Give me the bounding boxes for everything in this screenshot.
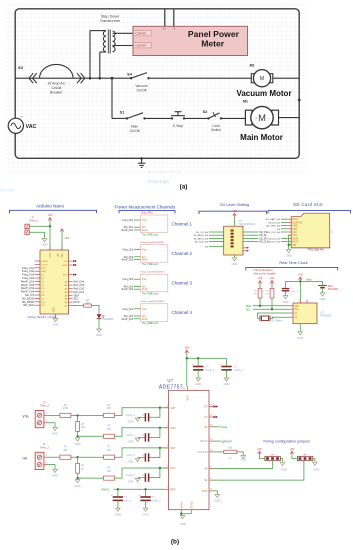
svg-text:+5V: +5V	[64, 237, 69, 240]
wire S1 to E-stop	[145, 117, 173, 119]
svg-text:Freq_Ch2: Freq_Ch2	[123, 249, 134, 252]
svg-text:SD_D1_3v3: SD_D1_3v3	[268, 242, 281, 244]
svg-text:On/Off: On/Off	[130, 129, 140, 133]
bracket Arduino Nano section	[10, 210, 97, 213]
svg-text:SD_CS: SD_CS	[25, 293, 34, 297]
wire SD_CLK	[243, 241, 259, 243]
svg-text:On/Off: On/Off	[137, 88, 147, 92]
svg-text:200: 200	[107, 407, 112, 410]
wire resistor to node	[71, 414, 78, 416]
arduino bottom GND pin	[55, 314, 57, 318]
wire branch to lower row	[111, 78, 113, 118]
wire +5V rail RTC	[286, 280, 323, 282]
wire RevP_Ch3	[134, 288, 140, 290]
resistor R220	[84, 304, 92, 307]
wire SD_D3_3v3	[281, 221, 288, 223]
svg-text:Ref_Ch1: Ref_Ch1	[74, 290, 85, 294]
capacitor C1 0.1uF	[282, 289, 289, 291]
op-amp U3 RTC IC body	[293, 303, 317, 324]
svg-text:GND: GND	[75, 442, 81, 446]
svg-text:LED3MM: LED3MM	[103, 318, 113, 321]
svg-text:SCL: SCL	[246, 307, 252, 311]
svg-text:(a): (a)	[180, 184, 188, 191]
wire REF	[114, 488, 165, 490]
svg-text:SD_SCK: SD_SCK	[23, 303, 34, 307]
svg-text:Term_2: Term_2	[40, 404, 49, 408]
wire LED to ground	[98, 319, 100, 329]
svg-text:Arduino Nano: Arduino Nano	[36, 204, 65, 209]
ADE left pins	[165, 407, 169, 409]
svg-text:0.1uF_d: 0.1uF_d	[126, 415, 135, 417]
ground filter row 2	[128, 438, 140, 443]
svg-text:SD_CLK_3v3: SD_CLK_3v3	[267, 232, 281, 234]
wire lower row	[112, 117, 127, 119]
svg-text:+5V: +5V	[289, 447, 294, 451]
svg-text:Panel Power: Panel Power	[188, 29, 240, 39]
svg-text:GND: GND	[214, 499, 220, 503]
svg-text:Ref: Ref	[142, 227, 146, 229]
ground battery	[320, 293, 326, 301]
grid background (decorative, part a canvas)	[5, 2, 306, 174]
svg-text:VCC: VCC	[50, 252, 52, 257]
top pin stubs	[49, 247, 51, 251]
svg-text:May not be installed: May not be installed	[254, 272, 277, 275]
+5V supply RTC pullup2	[269, 276, 274, 285]
wire SD_CS	[243, 231, 259, 233]
resistor R pullup SCL	[271, 285, 273, 289]
svg-text:Real Time Clock: Real Time Clock	[279, 260, 307, 265]
svg-text:Switch: Switch	[211, 128, 221, 132]
svg-text:SD_D0_3v3: SD_D0_3v3	[268, 238, 281, 240]
svg-text:VIN: VIN	[64, 261, 68, 263]
svg-text:The_PME1.sch: The_PME1.sch	[142, 263, 159, 266]
wire +5V to IC top	[234, 217, 236, 226]
wire R6k2 to ground	[237, 452, 244, 455]
wire resistor to node	[71, 456, 78, 458]
svg-text:RevP_Ch2: RevP_Ch2	[21, 283, 35, 287]
svg-text:Ref: Ref	[142, 286, 146, 288]
svg-text:Step Down: Step Down	[101, 15, 120, 19]
svg-text:+5V: +5V	[257, 276, 262, 280]
motor M1 main	[245, 106, 278, 128]
svg-text:GND: GND	[54, 307, 56, 312]
svg-text:+5V: +5V	[269, 276, 274, 280]
AC source VAC	[8, 118, 23, 133]
svg-text:Power_meterEC1234567: Power_meterEC1234567	[141, 241, 165, 244]
svg-text:Freq_Ch4: Freq_Ch4	[22, 276, 34, 280]
wire main top row	[15, 77, 131, 79]
svg-text:SCL: SCL	[74, 297, 80, 301]
svg-text:The_PME1.sch: The_PME1.sch	[142, 293, 159, 296]
svg-text:GND: GND	[195, 382, 201, 386]
svg-text:RevP: RevP	[142, 319, 148, 321]
jumper JP1 3-pin	[265, 454, 280, 460]
svg-text:SDA: SDA	[246, 304, 252, 308]
svg-text:32.768kHz: 32.768kHz	[272, 320, 284, 322]
wire +5V to jumper 2	[292, 455, 298, 458]
svg-text:CD/DAT3: CD/DAT3	[292, 221, 302, 224]
resistor R pullup SDA	[259, 285, 261, 289]
svg-text:GND: GND	[286, 254, 292, 258]
svg-text:SD Card Slot: SD Card Slot	[293, 202, 323, 207]
svg-text:+: +	[20, 115, 22, 119]
capacitor C filter row 2	[145, 433, 148, 441]
junction dot right rail	[298, 99, 301, 102]
svg-text:GND: GND	[180, 522, 186, 526]
svg-text:Ref_Ch4: Ref_Ch4	[74, 280, 85, 284]
svg-text:GND: GND	[128, 460, 134, 464]
svg-text:The_PME1.sch: The_PME1.sch	[142, 322, 159, 325]
ADE bottom pins AGND DGND	[180, 510, 182, 514]
wire RevP_Ch1	[134, 229, 140, 231]
connector J1 Term_2	[25, 215, 38, 234]
wire Ref_Ch2	[134, 256, 140, 258]
wire pin2 to ground	[48, 465, 55, 470]
wire cap to ground row 2	[138, 436, 146, 438]
svg-text:REF: REF	[170, 487, 176, 491]
ground jumper 2	[313, 462, 320, 471]
svg-text:Freq: Freq	[142, 219, 147, 222]
svg-text:F2: F2	[204, 415, 208, 419]
svg-text:F1: F1	[204, 405, 208, 409]
svg-text:6k2: 6k2	[228, 447, 233, 450]
svg-text:GND: GND	[115, 512, 121, 516]
svg-text:SD_CS_3v3: SD_CS_3v3	[196, 232, 209, 234]
wire row 3 to filter cap	[149, 448, 160, 458]
svg-text:DGND: DGND	[190, 501, 193, 508]
wire row 1 to chip	[115, 408, 169, 416]
svg-text:GND: GND	[75, 484, 81, 488]
svg-text:Ref: Ref	[142, 257, 146, 259]
svg-text:SD_CMD_3v3: SD_CMD_3v3	[266, 226, 281, 228]
svg-text:RevP: RevP	[142, 260, 148, 262]
resistor R 33k series	[60, 455, 71, 459]
svg-text:Channel 1: Channel 1	[172, 221, 193, 226]
svg-text:Ref: Ref	[142, 316, 146, 318]
wire E-stop to S2	[184, 117, 209, 119]
svg-text:S2: S2	[203, 110, 208, 114]
wire Freq_Ch3	[134, 278, 140, 280]
capacitor C filter row 3	[145, 453, 148, 461]
wire to series R row 3	[78, 456, 104, 458]
ground SD card	[286, 250, 292, 258]
svg-text:GND: GND	[53, 323, 59, 327]
op-amp U2 level shifter IC body	[224, 226, 243, 255]
wire VSS down	[289, 235, 292, 249]
svg-text:Current: Current	[135, 44, 146, 48]
svg-text:1.0uF_d: 1.0uF_d	[234, 369, 243, 372]
+5V supply ADE	[184, 346, 189, 355]
resistor R 200 row 2	[104, 434, 115, 438]
wire Ref_Ch3	[134, 285, 140, 287]
wire Freq_Ch1	[134, 219, 140, 221]
svg-text:V2P: V2P	[170, 406, 175, 410]
wire RevP_Ch2	[134, 259, 140, 261]
wire S0 to jumper 1	[213, 461, 273, 469]
svg-text:GND: GND	[41, 271, 46, 273]
ground level shifter	[232, 258, 238, 266]
wire +5V down to VCC pin	[49, 222, 51, 251]
svg-text:SCL: SCL	[294, 309, 299, 311]
svg-text:+5V: +5V	[257, 447, 262, 451]
svg-text:V2N: V2N	[170, 426, 175, 430]
svg-text:DAT2: DAT2	[292, 218, 298, 221]
svg-text:SD_SCK_3v3: SD_SCK_3v3	[195, 242, 209, 244]
svg-text:S1: S1	[204, 478, 208, 482]
ground J1-2	[42, 239, 48, 247]
svg-text:0.1uF_d: 0.1uF_d	[126, 455, 135, 457]
svg-text:@REVP: @REVP	[222, 439, 232, 443]
svg-text:GND: GND	[128, 439, 134, 443]
svg-text:GND: GND	[52, 432, 58, 436]
wire S4 to vacuum motor	[149, 77, 252, 79]
ground symbol	[140, 157, 143, 160]
wire crystal X2	[270, 317, 290, 318]
ground filter row 1	[128, 418, 140, 423]
svg-text:AGND: AGND	[180, 501, 183, 508]
wire to series R row 1	[78, 414, 104, 416]
svg-text:GND: GND	[320, 297, 326, 301]
motor M2 vacuum	[251, 70, 272, 87]
svg-text:+5V: +5V	[47, 213, 52, 217]
meter current input labels	[134, 30, 152, 35]
wire SD_CS_3v3	[209, 231, 224, 233]
svg-text:VAC: VAC	[26, 124, 37, 130]
svg-text:Channel 2: Channel 2	[172, 251, 193, 256]
svg-text:GND: GND	[52, 474, 58, 478]
svg-text:Freq: Freq	[142, 249, 147, 252]
svg-text:CLK: CLK	[292, 232, 297, 234]
arduino left pins	[35, 260, 41, 262]
svg-text:Freq_Ch1: Freq_Ch1	[123, 219, 134, 222]
svg-text:GND: GND	[62, 265, 67, 267]
wire cap to ground row 1	[138, 416, 146, 418]
wire pin1 to series resistor	[48, 456, 60, 458]
svg-text:S0: S0	[204, 467, 208, 471]
svg-text:200: 200	[107, 449, 112, 452]
resistor R 200 row 1	[104, 413, 115, 417]
battery BAT1	[322, 281, 324, 285]
svg-text:1uF_d: 1uF_d	[124, 500, 131, 503]
svg-text:Descargar: Descargar	[148, 179, 170, 184]
svg-text:0.1uF_d: 0.1uF_d	[290, 291, 299, 293]
wire SD_SCK_3v3	[209, 241, 224, 243]
wire +5V rail	[187, 357, 227, 359]
svg-text:Freq: Freq	[142, 278, 147, 281]
svg-text:Circuit: Circuit	[51, 86, 61, 90]
svg-text:Freq_Ch4: Freq_Ch4	[123, 308, 134, 311]
wire SD_CLK_3v3	[281, 231, 288, 233]
bracket real time clock section	[246, 268, 338, 271]
wire SD_DO	[243, 237, 259, 239]
svg-text:DAT1: DAT1	[292, 241, 298, 244]
svg-text:Timing configuration jumpers: Timing configuration jumpers	[263, 439, 310, 443]
svg-text:CMD: CMD	[292, 226, 298, 228]
wire to series R row 4	[78, 477, 104, 479]
switch S1 main on/off	[126, 117, 128, 119]
svg-text:RefC0: RefC0	[102, 487, 110, 491]
ground RCLKIN	[240, 455, 246, 461]
ground divider iin	[75, 480, 81, 488]
svg-text:Power_meterEC1234567: Power_meterEC1234567	[141, 300, 165, 303]
svg-text:Freq: Freq	[142, 308, 147, 311]
wire Ref_Ch1	[134, 226, 140, 228]
op-amp U1 Arduino Nano IC body	[40, 250, 69, 314]
+5V supply jumper 2	[289, 447, 294, 456]
wire SDA	[253, 305, 290, 307]
svg-text:GND: GND	[96, 333, 102, 337]
svg-text:0.1uF_d: 0.1uF_d	[205, 369, 214, 372]
wire SCL	[253, 308, 290, 310]
svg-text:I In: I In	[23, 456, 28, 460]
resistor R 200 shunt	[76, 422, 80, 432]
wire J1-1 to +5V	[30, 225, 50, 227]
ground ADE	[180, 516, 186, 526]
svg-text:SD_D3_3v3: SD_D3_3v3	[268, 222, 281, 224]
svg-text:Power Measurement Channels: Power Measurement Channels	[115, 204, 176, 209]
wire pin1 to series resistor	[48, 414, 60, 416]
SD card pins	[288, 218, 291, 220]
svg-text:GND: GND	[240, 458, 246, 462]
svg-text:Channel 3: Channel 3	[172, 281, 193, 286]
resistor R 1k shunt	[76, 463, 80, 473]
svg-text:V-: V-	[173, 26, 176, 30]
svg-text:RevP: RevP	[142, 289, 148, 291]
svg-text:V1P: V1P	[170, 446, 175, 450]
svg-text:4(0)1(6):;: 4(0)1(6):;	[0, 187, 16, 192]
svg-text:IC?: IC?	[331, 229, 334, 233]
svg-text:VDD: VDD	[187, 395, 190, 400]
wire row 2 to chip	[115, 428, 169, 437]
svg-text:RevP: RevP	[142, 230, 148, 232]
wire R220 to LED	[91, 306, 99, 315]
svg-text:Freq_Ch3: Freq_Ch3	[123, 278, 134, 281]
bracket power measurement section	[119, 211, 175, 214]
svg-text:S3: S3	[18, 65, 24, 70]
wire SD_DI	[243, 234, 259, 236]
resistor R pullup SCL 4k7	[270, 288, 274, 298]
wire node down through divider	[77, 457, 79, 463]
svg-text:Term_2: Term_2	[40, 445, 49, 449]
level shifter aux pins bottom right	[243, 247, 247, 249]
wire jumper 1 to ground	[280, 459, 282, 463]
ground C ref 0.5uF_d	[143, 508, 149, 516]
svg-text:RevP_Ch1: RevP_Ch1	[21, 279, 35, 283]
svg-text:74LVC245+5v3: 74LVC245+5v3	[239, 223, 256, 226]
wire RCLKIN	[213, 451, 224, 453]
svg-text:M2: M2	[250, 63, 255, 67]
svg-text:M1: M1	[243, 99, 248, 103]
wire row 3 to chip	[115, 448, 169, 457]
resistor R 470k series	[60, 413, 71, 417]
ground C1	[283, 296, 289, 304]
svg-text:Main Motor: Main Motor	[240, 133, 283, 142]
ground RTC	[297, 332, 303, 340]
svg-text:The_PME1.sch: The_PME1.sch	[142, 233, 159, 236]
wire S1 to jumper 2	[213, 461, 304, 480]
junction dots on top row	[89, 77, 92, 80]
capacitor C ref 0.5uF_d	[140, 497, 150, 500]
resistor R pullup SDA 4k7	[258, 288, 262, 298]
wire IC bottom to ground	[234, 255, 236, 258]
capacitor C filter row 4	[145, 473, 148, 481]
capacitor C bulk 1.0uF	[221, 367, 231, 370]
wire 3v3	[209, 245, 224, 247]
ground LED	[96, 329, 102, 337]
svg-text:Vbat: Vbat	[306, 277, 312, 281]
transformer T1 (step down)	[90, 30, 133, 79]
svg-text:SDA: SDA	[74, 293, 80, 297]
ground SCF	[214, 495, 220, 503]
ground C decoupling 1	[195, 378, 201, 386]
resistor R 200 row 3	[104, 455, 115, 459]
ground C ref 1uF_d	[115, 508, 121, 516]
svg-text:MS412FE: MS412FE	[328, 289, 339, 291]
svg-text:Current: Current	[135, 32, 146, 36]
svg-text:Power_meterEC1234567: Power_meterEC1234567	[141, 271, 165, 274]
capacitor C filter row 1	[145, 413, 148, 421]
arduino right lower pins	[69, 281, 73, 283]
svg-text:RevP_Ch3: RevP_Ch3	[122, 288, 134, 291]
pushbutton E-Stop	[171, 112, 185, 116]
svg-text:+: +	[255, 116, 257, 120]
wire crystal X1	[258, 313, 290, 318]
panel power meter box	[133, 26, 248, 55]
svg-text:TF09-2066-442: TF09-2066-442	[307, 249, 324, 252]
svg-text:SD_MISO: SD_MISO	[22, 300, 34, 304]
wire row 2 to filter cap	[149, 428, 160, 438]
wire SD_D0_3v3	[281, 237, 288, 239]
svg-text:PCF8523T: PCF8523T	[320, 315, 332, 318]
ground arduino	[53, 318, 59, 326]
wire SD_MOSI_3v3	[209, 234, 224, 236]
svg-text:Term_2: Term_2	[29, 219, 38, 223]
wire J1-2 to ground	[30, 232, 45, 238]
svg-text:V In: V In	[23, 415, 29, 419]
svg-text:200: 200	[107, 428, 112, 431]
+5V supply pin 27	[60, 229, 69, 251]
svg-text:V1N: V1N	[170, 466, 175, 470]
svg-text:Breaker: Breaker	[50, 90, 63, 94]
wire SW to gnd rail	[289, 244, 292, 246]
ground filter row 3	[128, 458, 140, 463]
ground filter row 4	[128, 478, 140, 483]
+5V supply RTC	[298, 273, 303, 282]
svg-text:GND: GND	[128, 480, 134, 484]
wire jumper 2 to ground	[313, 459, 315, 463]
+5V supply level shifter	[232, 209, 237, 218]
svg-text:+5V: +5V	[298, 273, 303, 277]
svg-text:RevP_Ch4: RevP_Ch4	[21, 290, 35, 294]
svg-text:200: 200	[107, 470, 112, 473]
svg-text:CF: CF	[204, 425, 208, 429]
wire cap to ground row 4	[138, 477, 146, 479]
wire SCF to ground	[213, 491, 217, 494]
svg-text:GND: GND	[224, 382, 230, 386]
svg-text:VIN: VIN	[62, 253, 64, 257]
circuit breaker S3 (15 Amp AC)	[29, 64, 85, 83]
svg-text:V+: V+	[162, 26, 166, 30]
svg-text:RevP_Ch1: RevP_Ch1	[122, 229, 134, 232]
svg-text:Arduino_Nano3.0_microSD: Arduino_Nano3.0_microSD	[28, 316, 57, 319]
jumper JP2 3-pin	[297, 454, 312, 460]
svg-text:0.5uF_d: 0.5uF_d	[152, 500, 161, 503]
svg-text:[(1) (10.5511.4(6) 5.1]: [(1) (10.5511.4(6) 5.1]	[148, 170, 181, 174]
wire row 4 to chip	[115, 468, 169, 478]
connector J J1 input	[35, 400, 49, 427]
svg-text:DAT0: DAT0	[292, 237, 298, 240]
ground jumper 1	[280, 462, 287, 471]
